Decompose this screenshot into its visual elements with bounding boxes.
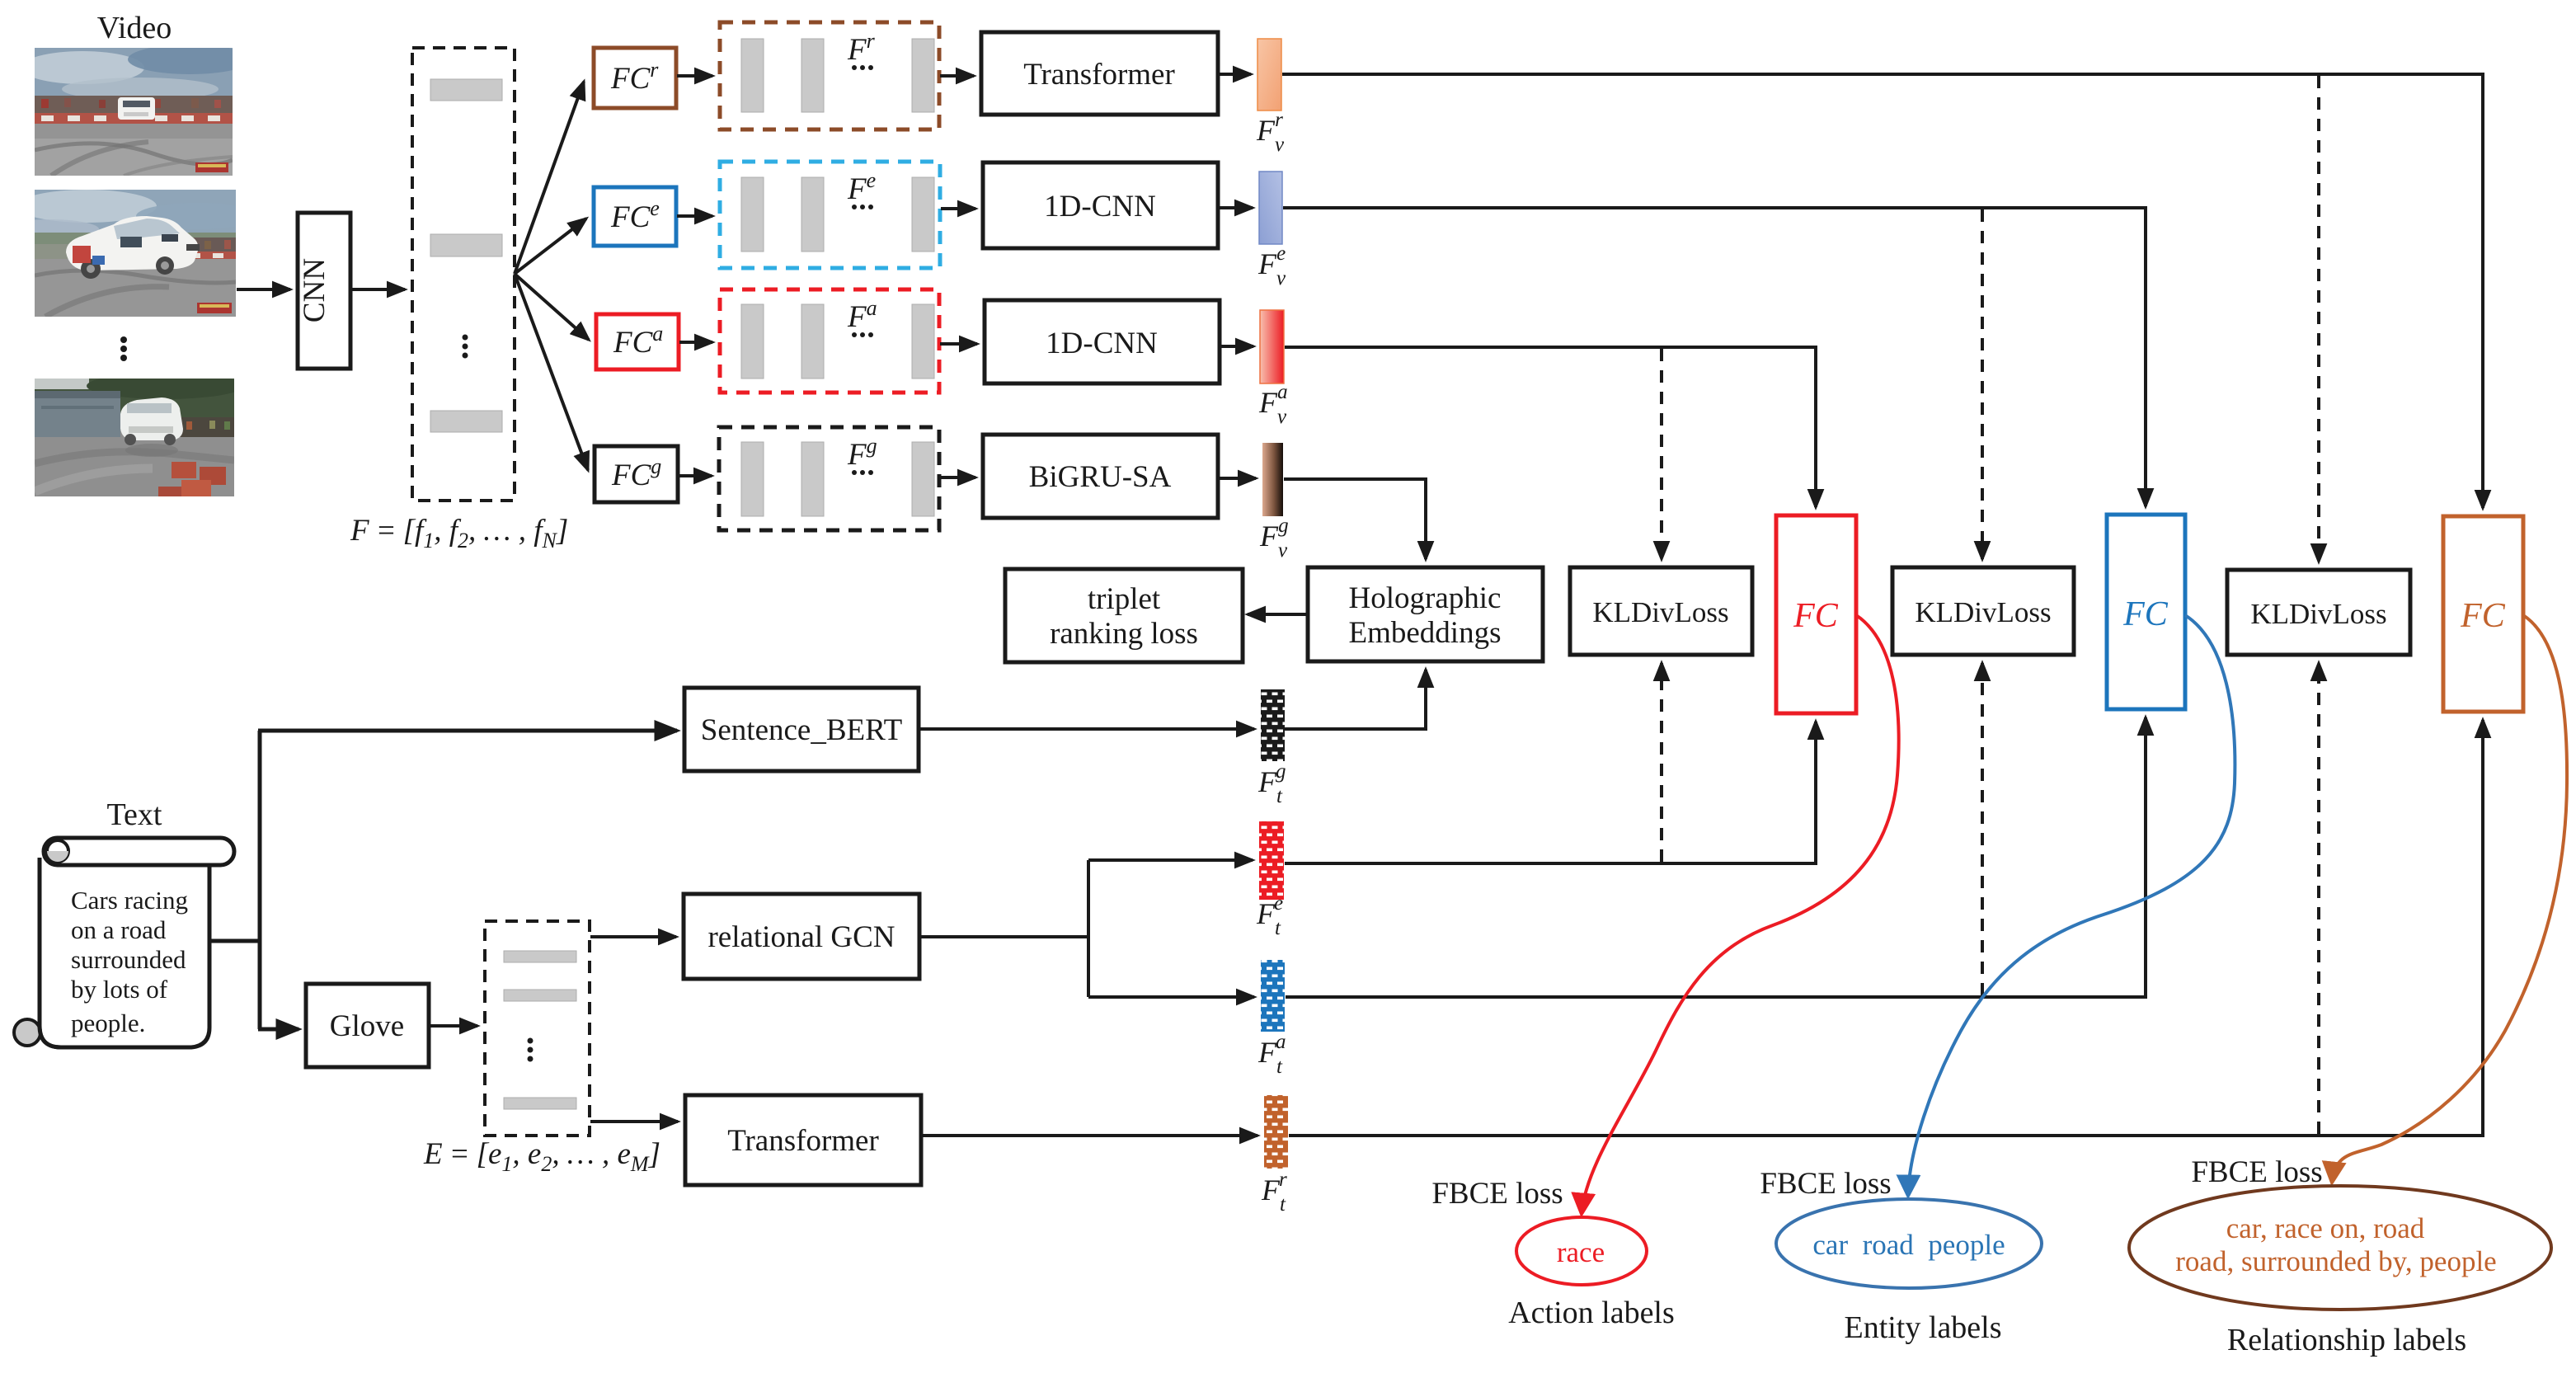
svg-text:KLDivLoss: KLDivLoss: [2250, 598, 2386, 630]
svg-text:Ftg: Ftg: [1257, 760, 1286, 807]
gray bar fN: [430, 411, 502, 432]
svg-text:Sentence_BERT: Sentence_BERT: [701, 713, 902, 747]
dashed wire to KLDivLoss1 top: [1660, 349, 1663, 559]
wire FC^e to feature box F^e: [677, 214, 712, 218]
svg-text:surrounded: surrounded: [71, 945, 186, 974]
gray bar f1: [430, 79, 502, 101]
svg-text:relational GCN: relational GCN: [707, 920, 895, 954]
svg-text:KLDivLoss: KLDivLoss: [1592, 596, 1728, 628]
wire fan to FC^e: [515, 219, 586, 274]
dashed feature box F^g (black): [719, 427, 939, 530]
svg-text:Transformer: Transformer: [1023, 58, 1175, 92]
entity ellipse: [1776, 1199, 2042, 1288]
wire E box to relational GCN: [590, 935, 676, 938]
video frame 3: [35, 373, 243, 496]
wire feature box F^a to 1D-CNN: [940, 342, 977, 346]
svg-text:Video: Video: [97, 11, 172, 45]
bar Fv^a: [1260, 310, 1284, 383]
svg-text:Fa: Fa: [847, 296, 877, 334]
svg-text:ranking loss: ranking loss: [1050, 617, 1198, 651]
dashed feature box F^a (red): [720, 289, 939, 393]
wire scroll to branch: [209, 731, 260, 1029]
svg-text:FBCE loss: FBCE loss: [1431, 1177, 1563, 1211]
red FC box: [1776, 515, 1856, 713]
wire FC^a to feature box F^a: [679, 341, 712, 344]
svg-text:1D-CNN: 1D-CNN: [1044, 190, 1156, 223]
race ellipse: [1516, 1217, 1647, 1285]
svg-text:Fve: Fve: [1257, 242, 1286, 289]
dashed wire to KLDivLoss2 top: [1981, 209, 1984, 559]
wire Ft^g to Holographic bottom: [1285, 670, 1426, 729]
svg-text:race: race: [1557, 1236, 1605, 1268]
svg-text:FC: FC: [1793, 597, 1839, 635]
video frame 2: [0, 190, 260, 317]
svg-text:Fg: Fg: [847, 434, 877, 472]
svg-text:Fvg: Fvg: [1259, 515, 1289, 562]
Sentence_BERT box: [684, 688, 919, 771]
wire fan to FC^r: [515, 82, 584, 274]
svg-text:on a road: on a road: [71, 915, 167, 944]
FC^g box: [595, 446, 678, 502]
wire Fv^g to Holographic top: [1284, 479, 1426, 559]
FC^a box: [596, 314, 679, 369]
dashed box E: [485, 921, 590, 1136]
dashed wire to KLDivLoss3 bottom: [2317, 663, 2320, 1134]
dashed wire to KLDivLoss1 bottom: [1660, 663, 1663, 862]
svg-text:road, surrounded by, people: road, surrounded by, people: [2175, 1245, 2496, 1277]
relationship ellipse: [2129, 1186, 2551, 1310]
wire fan to FC^g: [515, 274, 588, 470]
wire fan to FC^a: [515, 274, 589, 340]
wire Fv^e to blue FC top: [1283, 208, 2146, 506]
dashed feature box F^r (brown): [720, 22, 939, 129]
triplet ranking loss box: [1005, 569, 1243, 662]
svg-text:1D-CNN: 1D-CNN: [1046, 327, 1158, 360]
bar Fv^e: [1259, 172, 1282, 244]
orange FC box: [2443, 516, 2523, 712]
svg-text:F=[f1, f2, … , fN]: F=[f1, f2, … , fN]: [350, 514, 568, 553]
FC^e box: [594, 187, 676, 246]
1D-CNN box (action): [985, 300, 1220, 383]
KLDivLoss box 1: [1570, 567, 1752, 655]
Transformer box (text): [685, 1095, 921, 1185]
wire E box to Transformer: [590, 1120, 678, 1123]
gray bar e1: [504, 951, 576, 962]
blue curve FC to entity ellipse: [1908, 615, 2235, 1196]
wire Fv^r to orange FC top: [1282, 74, 2483, 508]
svg-text:KLDivLoss: KLDivLoss: [1915, 596, 2051, 628]
red curve FC to race ellipse: [1582, 615, 1899, 1214]
gray bar eM: [504, 1098, 576, 1109]
arrow branch to Glove: [258, 1028, 298, 1032]
wire feature box F^e to 1D-CNN: [941, 207, 975, 210]
wire BiGRU-SA to Fv^g: [1219, 477, 1256, 480]
bar Ft^a: [1261, 960, 1285, 1032]
Transformer box (video): [981, 32, 1218, 115]
wire Transformer to Ft^r: [922, 1134, 1257, 1137]
video frame 1: [21, 45, 251, 176]
relational GCN box: [684, 894, 919, 979]
svg-text:Fvr: Fvr: [1256, 109, 1285, 156]
blue FC box: [2107, 515, 2185, 709]
1D-CNN box (entity): [983, 162, 1218, 248]
svg-text:Embeddings: Embeddings: [1349, 616, 1502, 650]
text scroll shape: [14, 838, 234, 1047]
orange curve FC to relationship ellipse: [2332, 615, 2567, 1183]
wire Sentence_BERT to Ft^g: [919, 727, 1254, 731]
arrow Glove to E box: [430, 1024, 477, 1028]
wire Ft^a to blue FC bottom: [1286, 717, 2146, 997]
svg-text:Transformer: Transformer: [727, 1124, 879, 1158]
Glove box: [306, 984, 429, 1067]
bar Ft^r: [1264, 1095, 1288, 1169]
dashed wire to KLDivLoss2 bottom: [1981, 663, 1984, 995]
wire FC^r to feature box F^r: [677, 74, 712, 78]
svg-text:Relationship labels: Relationship labels: [2227, 1323, 2466, 1357]
arrow branch to Sentence_BERT: [258, 729, 677, 733]
svg-text:Glove: Glove: [330, 1009, 404, 1043]
wire Ft^r to orange FC bottom: [1289, 720, 2483, 1136]
wire 1D-CNN to Fv^a: [1220, 345, 1253, 348]
gray bar e2: [504, 990, 576, 1001]
svg-text:Text: Text: [107, 797, 162, 832]
KLDivLoss box 3: [2227, 570, 2410, 655]
svg-text:people.: people.: [71, 1009, 145, 1037]
svg-text:Ftr: Ftr: [1261, 1169, 1287, 1216]
dashed wire to KLDivLoss3 top: [2317, 76, 2320, 562]
svg-text:FBCE loss: FBCE loss: [2191, 1155, 2322, 1189]
wire Fv^a to red FC top: [1285, 347, 1816, 507]
bar Ft^e: [1259, 821, 1284, 900]
bar Fv^r: [1257, 39, 1281, 111]
svg-text:Action labels: Action labels: [1508, 1296, 1675, 1330]
wire 1D-CNN to Fv^e: [1219, 206, 1253, 209]
gray bar f2: [430, 234, 502, 256]
wire feature box F^r to Transformer: [940, 74, 974, 78]
arrow frame2 to CNN: [237, 288, 290, 291]
wire FC^g to feature box F^g: [679, 474, 712, 477]
dashed feature box F^e (cyan): [720, 162, 940, 268]
svg-text:Fta: Fta: [1257, 1031, 1286, 1078]
bar Ft^g: [1261, 689, 1285, 761]
CNN box: [298, 213, 350, 369]
Holographic Embeddings box: [1308, 567, 1543, 661]
wire feature box F^g to BiGRU-SA: [940, 476, 975, 479]
wire relational GCN fork to Ft^e and Ft^a: [920, 860, 1088, 997]
svg-text:BiGRU-SA: BiGRU-SA: [1029, 460, 1172, 494]
svg-text:Fr: Fr: [847, 29, 876, 67]
KLDivLoss box 2: [1892, 567, 2074, 655]
svg-text:triplet: triplet: [1088, 582, 1161, 616]
wire Ft^e to red FC bottom: [1285, 722, 1816, 863]
svg-text:Fte: Fte: [1256, 892, 1283, 939]
svg-text:Cars racing: Cars racing: [71, 886, 188, 915]
svg-text:FC: FC: [2460, 597, 2506, 635]
svg-text:FBCE loss: FBCE loss: [1760, 1167, 1891, 1201]
arrow Holographic to triplet: [1248, 613, 1307, 616]
svg-text:Fva: Fva: [1258, 381, 1288, 428]
dots in F box: [463, 335, 468, 341]
svg-text:FC: FC: [2122, 595, 2169, 633]
arrow CNN to F box: [351, 288, 405, 291]
svg-text:car, race on, road: car, race on, road: [2226, 1212, 2425, 1244]
dashed box F: [412, 48, 515, 501]
svg-text:CNN: CNN: [298, 258, 331, 322]
svg-text:Holographic: Holographic: [1349, 581, 1502, 615]
svg-text:Entity labels: Entity labels: [1844, 1310, 2001, 1345]
svg-text:car road people: car road people: [1812, 1229, 2005, 1261]
svg-text:Fe: Fe: [847, 168, 876, 206]
wire Transformer to Fv^r: [1219, 73, 1251, 76]
FC^r box: [594, 48, 676, 108]
dots in E box: [528, 1038, 534, 1044]
svg-text:E=[e1, e2, … , eM]: E=[e1, e2, … , eM]: [423, 1137, 660, 1176]
bar Fv^g: [1262, 443, 1283, 516]
dots between frames: [120, 336, 127, 343]
svg-text:by lots of: by lots of: [71, 975, 168, 1004]
BiGRU-SA box: [983, 435, 1218, 518]
